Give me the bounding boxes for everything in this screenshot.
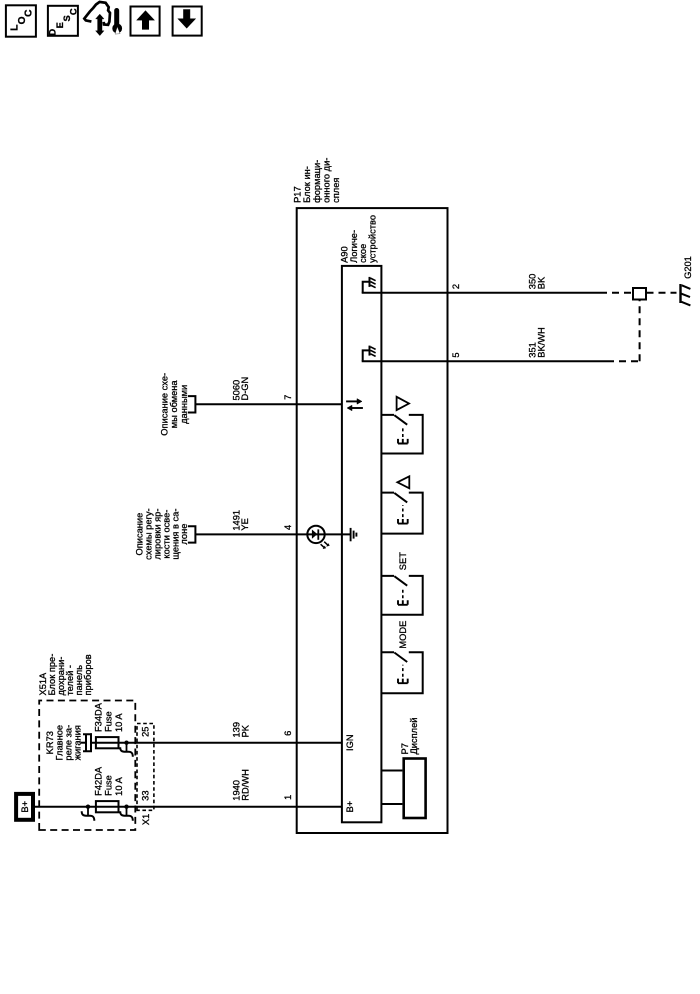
- svg-text:IGN: IGN: [345, 734, 355, 751]
- svg-text:мы обмена: мы обмена: [169, 380, 179, 429]
- svg-text:G201: G201: [683, 256, 693, 279]
- svg-text:B+: B+: [345, 801, 355, 813]
- svg-text:приборов: приборов: [83, 654, 93, 695]
- svg-text:10 A: 10 A: [114, 776, 124, 795]
- svg-text:жигания: жигания: [73, 725, 83, 760]
- svg-text:BK: BK: [536, 276, 546, 289]
- svg-text:онного ди-: онного ди-: [321, 158, 331, 203]
- svg-text:7: 7: [283, 395, 293, 400]
- svg-text:S: S: [62, 15, 72, 21]
- svg-text:C: C: [24, 9, 35, 17]
- svg-text:4: 4: [283, 525, 293, 530]
- svg-text:устройство: устройство: [367, 215, 377, 263]
- svg-text:10 A: 10 A: [114, 713, 124, 732]
- svg-text:F42DA: F42DA: [93, 766, 103, 796]
- svg-text:6: 6: [283, 731, 293, 736]
- svg-text:лоне: лоне: [179, 524, 189, 545]
- svg-text:Fuse: Fuse: [104, 775, 114, 796]
- svg-text:B+: B+: [20, 801, 30, 813]
- svg-text:E: E: [55, 22, 65, 28]
- svg-text:D-GN: D-GN: [240, 377, 250, 401]
- svg-text:формаци-: формаци-: [312, 160, 322, 203]
- svg-text:F34DA: F34DA: [93, 702, 103, 732]
- svg-text:1: 1: [283, 795, 293, 800]
- svg-text:Блок ин-: Блок ин-: [302, 166, 312, 203]
- svg-text:O: O: [17, 16, 28, 24]
- svg-text:RD/WH: RD/WH: [240, 769, 250, 801]
- svg-text:C: C: [69, 8, 79, 15]
- svg-text:D: D: [48, 29, 58, 36]
- svg-text:X1: X1: [141, 814, 151, 825]
- svg-text:SET: SET: [398, 552, 408, 570]
- svg-text:BK/WH: BK/WH: [536, 327, 546, 357]
- svg-text:сплея: сплея: [331, 178, 341, 203]
- svg-text:Описание схе-: Описание схе-: [159, 373, 169, 436]
- svg-text:Дисплей: Дисплей: [409, 718, 419, 755]
- svg-text:данными: данными: [179, 385, 189, 424]
- svg-text:P17: P17: [293, 186, 303, 203]
- svg-text:25: 25: [140, 727, 150, 737]
- svg-text:33: 33: [140, 790, 150, 800]
- svg-text:5: 5: [451, 352, 461, 357]
- svg-text:PK: PK: [240, 724, 250, 737]
- svg-text:MODE: MODE: [398, 621, 408, 649]
- svg-text:L: L: [9, 24, 20, 30]
- svg-text:YE: YE: [240, 518, 250, 530]
- svg-text:2: 2: [451, 284, 461, 289]
- svg-text:Fuse: Fuse: [104, 711, 114, 732]
